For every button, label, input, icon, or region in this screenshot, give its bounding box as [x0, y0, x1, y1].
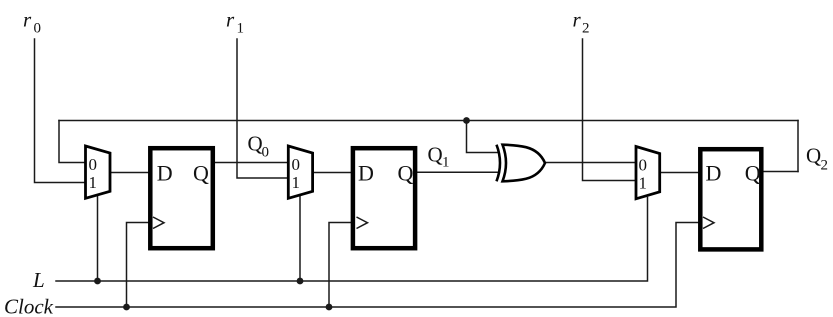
wire XOR top input tap	[467, 121, 499, 153]
clock wedge FF3	[703, 217, 714, 229]
svg-text:Q: Q	[428, 142, 443, 166]
wire FF1 clock	[127, 223, 151, 308]
svg-text:L: L	[32, 268, 45, 292]
node feedback tap junction	[463, 117, 470, 124]
wire r0 input vertical	[35, 39, 86, 183]
flip-flop FF2	[353, 148, 415, 248]
node Clock FF1 junction	[123, 304, 130, 311]
svg-text:Q: Q	[398, 160, 414, 185]
wire Clock horizontal	[56, 223, 700, 308]
wire Q2 output from FF3	[763, 171, 798, 173]
svg-text:1: 1	[237, 21, 245, 37]
wire mux2 output to FF2 D	[313, 172, 354, 174]
svg-text:Q: Q	[248, 132, 263, 156]
svg-text:0: 0	[34, 21, 42, 37]
svg-text:2: 2	[821, 158, 829, 174]
svg-text:Clock: Clock	[4, 295, 54, 317]
svg-text:Q: Q	[193, 160, 209, 185]
node L mux1 junction	[94, 278, 101, 285]
wire mux2 select	[299, 197, 301, 282]
svg-text:r: r	[23, 8, 32, 32]
clock wedge FF2	[357, 217, 368, 229]
svg-text:0: 0	[89, 155, 98, 174]
svg-text:Q: Q	[745, 160, 761, 185]
wire feedback top horizontal	[59, 120, 798, 122]
XOR gate G1	[497, 145, 546, 182]
wire FF2 clock	[329, 223, 353, 308]
wire FF2 Q to XOR (node Q1)	[416, 171, 498, 173]
wire FF1 Q to mux2 (node Q0)	[213, 162, 288, 164]
svg-text:0: 0	[292, 155, 301, 174]
multiplexer mux3	[636, 147, 660, 199]
svg-text:0: 0	[262, 145, 270, 161]
svg-text:2: 2	[582, 21, 590, 37]
svg-text:D: D	[157, 160, 173, 185]
wire mux1 select	[97, 197, 99, 282]
svg-text:1: 1	[292, 173, 301, 192]
clock wedge FF1	[153, 217, 164, 229]
wire mux3 output to FF3 D	[660, 172, 701, 174]
multiplexer mux1	[86, 146, 111, 198]
node L mux2 junction	[297, 278, 304, 285]
multiplexer mux2	[288, 146, 312, 198]
wire r2 input vertical	[583, 39, 637, 181]
wire feedback riser right	[797, 121, 799, 172]
svg-text:D: D	[706, 160, 722, 185]
wire r1 input vertical	[237, 39, 288, 178]
svg-text:1: 1	[639, 174, 648, 193]
wire mux1 output to FF1 D	[110, 172, 150, 174]
wire XOR output to mux3	[545, 162, 636, 164]
flip-flop FF1	[150, 148, 213, 248]
svg-text:r: r	[226, 8, 235, 32]
svg-text:0: 0	[639, 155, 648, 174]
svg-text:Q: Q	[806, 144, 821, 168]
wire L horizontal	[56, 198, 648, 282]
svg-text:r: r	[573, 8, 582, 32]
svg-text:D: D	[358, 160, 374, 185]
node Clock FF2 junction	[326, 304, 333, 311]
svg-text:1: 1	[89, 173, 98, 192]
wire feedback left drop	[59, 121, 85, 163]
svg-text:1: 1	[442, 155, 450, 171]
flip-flop FF3	[700, 149, 761, 249]
